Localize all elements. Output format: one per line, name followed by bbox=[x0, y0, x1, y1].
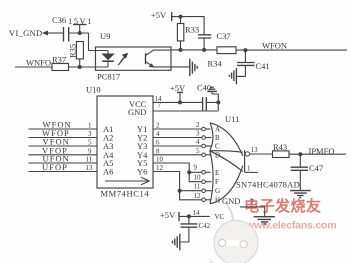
svg-text:3: 3 bbox=[196, 130, 200, 138]
svg-text:C: C bbox=[215, 143, 220, 151]
svg-text:+5V: +5V bbox=[170, 83, 186, 93]
svg-text:+5V: +5V bbox=[151, 10, 167, 20]
svg-text:11: 11 bbox=[86, 156, 93, 164]
svg-text:10: 10 bbox=[156, 156, 164, 164]
svg-text:R33: R33 bbox=[185, 25, 199, 35]
svg-text:U10: U10 bbox=[86, 85, 101, 95]
svg-text:F: F bbox=[215, 178, 219, 186]
svg-text:C42: C42 bbox=[199, 222, 211, 230]
svg-text:U11: U11 bbox=[225, 114, 239, 124]
svg-text:8: 8 bbox=[156, 147, 160, 155]
svg-text:Y6: Y6 bbox=[137, 167, 147, 177]
svg-text:12: 12 bbox=[156, 164, 164, 172]
svg-text:A6: A6 bbox=[103, 167, 113, 177]
svg-text:4: 4 bbox=[196, 138, 200, 146]
svg-text:13: 13 bbox=[86, 164, 94, 172]
svg-text:14: 14 bbox=[193, 209, 201, 217]
svg-text:1: 1 bbox=[247, 165, 251, 173]
svg-text:C37: C37 bbox=[217, 31, 231, 41]
svg-text:www.elecfans.com: www.elecfans.com bbox=[245, 220, 336, 232]
svg-text:WNFO: WNFO bbox=[26, 58, 51, 68]
svg-text:SN74HC4078AD: SN74HC4078AD bbox=[236, 179, 300, 189]
svg-text:C41: C41 bbox=[256, 61, 270, 71]
svg-text:G: G bbox=[215, 187, 220, 195]
svg-text:R34: R34 bbox=[208, 59, 223, 69]
svg-text:PC817: PC817 bbox=[97, 72, 120, 82]
svg-text:+5V: +5V bbox=[160, 210, 176, 220]
svg-text:10: 10 bbox=[194, 174, 202, 182]
svg-text:UFOP: UFOP bbox=[42, 162, 68, 172]
svg-text:11: 11 bbox=[194, 183, 201, 191]
svg-text:E: E bbox=[215, 169, 219, 177]
svg-text:9: 9 bbox=[88, 147, 92, 155]
svg-text:VI_GND: VI_GND bbox=[9, 28, 42, 38]
svg-text:7: 7 bbox=[158, 102, 162, 110]
svg-text:3: 3 bbox=[88, 130, 92, 138]
svg-text:WFON: WFON bbox=[262, 41, 287, 51]
svg-text:2: 2 bbox=[196, 121, 200, 129]
svg-text:GND: GND bbox=[222, 196, 240, 206]
svg-text:5: 5 bbox=[196, 147, 200, 155]
svg-text:IPMFO: IPMFO bbox=[309, 146, 335, 156]
svg-text:1: 1 bbox=[88, 122, 92, 130]
svg-text:U9: U9 bbox=[100, 31, 110, 41]
svg-text:B: B bbox=[215, 134, 220, 142]
svg-text:GND: GND bbox=[128, 107, 146, 117]
svg-text:7: 7 bbox=[251, 198, 255, 206]
svg-text:C36: C36 bbox=[52, 15, 66, 25]
svg-text:电子发烧友: 电子发烧友 bbox=[244, 197, 322, 215]
svg-text:13: 13 bbox=[251, 146, 259, 154]
svg-text:MM74HC14: MM74HC14 bbox=[101, 188, 150, 198]
svg-text:C47: C47 bbox=[309, 163, 323, 173]
svg-text:6: 6 bbox=[156, 139, 160, 147]
svg-text:R35: R35 bbox=[68, 44, 78, 58]
svg-text:9: 9 bbox=[194, 164, 198, 172]
svg-text:4: 4 bbox=[156, 130, 160, 138]
svg-text:VC: VC bbox=[215, 213, 225, 221]
svg-text:12: 12 bbox=[194, 192, 202, 200]
svg-text:2: 2 bbox=[156, 122, 160, 130]
svg-text:5: 5 bbox=[88, 139, 92, 147]
